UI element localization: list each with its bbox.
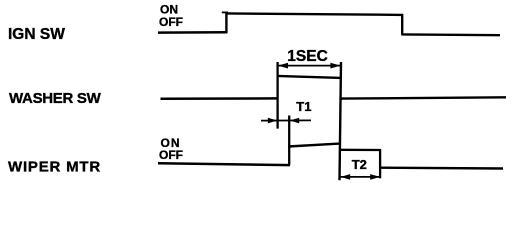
wire WASHER SW off-level right xyxy=(340,97,506,98)
svg-text:OFF: OFF xyxy=(159,15,183,29)
wire IGN SW falling edge xyxy=(401,14,403,35)
wire WIPER MTR off-level left xyxy=(158,163,290,165)
svg-text:WASHER SW: WASHER SW xyxy=(9,90,102,107)
wire WASHER SW falling edge with extension line down to T2 xyxy=(340,62,342,180)
wire IGN SW off-level right xyxy=(402,33,501,36)
wire WIPER MTR off-level right xyxy=(380,166,504,169)
dimension line T2 xyxy=(340,176,380,178)
wire WASHER SW off-level left xyxy=(161,97,279,100)
svg-text:T1: T1 xyxy=(296,99,311,114)
svg-text:WIPER MTR: WIPER MTR xyxy=(8,158,101,175)
arrowhead T1 left (pointing right at washer edge) xyxy=(268,118,277,124)
wire WIPER MTR on-level B xyxy=(339,149,381,151)
arrowhead 1SEC left xyxy=(278,63,288,69)
svg-text:OFF: OFF xyxy=(159,148,183,162)
svg-text:IGN SW: IGN SW xyxy=(8,26,65,43)
arrowhead 1SEC right xyxy=(330,63,340,69)
arrowhead T2 left xyxy=(340,174,350,180)
dimension line 1SEC xyxy=(278,65,341,67)
svg-text:1SEC: 1SEC xyxy=(287,48,328,65)
wire IGN SW on-level xyxy=(226,13,404,15)
arrowhead T1 right (pointing left at wiper edge) xyxy=(290,118,299,124)
wire IGN SW rising edge xyxy=(225,13,227,33)
dimension line T1 xyxy=(261,119,311,121)
svg-text:T2: T2 xyxy=(352,157,367,172)
wire WIPER MTR rising edge with extension up to T1 xyxy=(288,116,290,166)
wire IGN SW off-level left xyxy=(158,31,227,34)
wire WIPER MTR on-level A xyxy=(288,144,339,147)
wire WASHER SW rising edge with extension lines xyxy=(276,62,278,129)
wire WIPER MTR falling edge with extension down xyxy=(379,149,381,178)
wire WASHER SW pulse top xyxy=(277,76,342,78)
wire IGN SW rising edge top stub xyxy=(222,11,228,13)
arrowhead T2 right xyxy=(370,174,380,180)
